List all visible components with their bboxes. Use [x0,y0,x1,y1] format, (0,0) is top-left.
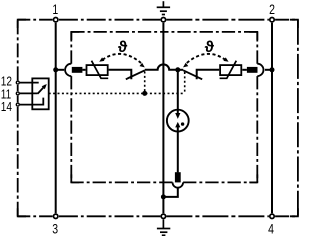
varistor RV2 body [220,65,241,75]
wire terminal 11 [20,92,38,94]
disconnect point left (socket notch in module edge) [65,64,71,76]
outer enclosure border (dash-dot) [18,20,298,217]
wire: left conductor terminal 1 to terminal 3 [55,23,57,213]
wire blade to centre node with hop over PE conductor [145,64,178,69]
terminal 12 circle [16,81,19,84]
disconnect point bottom (socket notch in module edge) [173,182,184,187]
varistor RV1 diagonal stroke [92,61,109,79]
thermal arc right arrowhead at varistor [223,57,228,61]
wire right switch fixed contact to varistor RV2 [197,70,220,80]
svg-text:ϑ: ϑ [118,39,128,56]
node centre junction dot [175,67,180,72]
wire: centre PE conductor top ground to bottom ground [162,23,164,213]
protection module dashed box (inner) [71,32,257,183]
disconnect point right (socket notch in module edge) [257,64,263,76]
wire bottom disconnect point to PE node [163,188,177,197]
svg-text:12: 12 [1,76,12,89]
wire from L1 node to left disconnect point [56,69,64,71]
changeover contact blade [38,85,46,94]
wire right disconnect point to L2 node [265,69,272,71]
ground symbol bottom [157,219,170,235]
spark gap F1 bottom electrode arrow [177,127,179,132]
node L1 junction dot [53,67,58,72]
thermal arc left arrowhead at varistor [99,57,104,61]
svg-text:14: 14 [1,101,12,114]
wire varistor RV1 to thermal switch fixed contact [109,70,132,80]
changeover contact blade arrowhead [42,84,47,89]
wire spark gap to bottom disconnect contact [177,132,179,173]
outer border corner joints [18,20,298,217]
wire to varistor RV1 [82,69,85,71]
thermal arc left (dashed) [103,54,142,63]
spark gap F1 top electrode arrow [177,110,179,114]
svg-text:ϑ: ϑ [205,39,215,56]
module box corner joints [71,32,257,183]
spark gap F1 circle [167,110,189,132]
terminal 2 circle [270,18,274,22]
wire: right conductor terminal 2 to terminal 4 [271,23,273,213]
terminal 14 circle [16,103,19,106]
terminal 11 circle [16,92,19,95]
disconnect contact block bottom (filled) [175,172,181,182]
thermal disconnect switch blade right [183,70,202,79]
svg-text:2: 2 [269,2,275,18]
node PE junction dot [161,194,166,199]
spark gap F1 wire from centre node [177,70,179,110]
svg-text:4: 4 [268,221,274,236]
wire terminal 12 [20,82,39,84]
terminal PE bottom circle [161,214,165,218]
remote signalling contact box [32,78,48,109]
svg-text:1: 1 [52,2,58,18]
svg-text:3: 3 [52,221,58,236]
wire centre node to right blade [178,69,183,71]
node L2 junction dot [270,67,275,72]
linkage junction dot [142,91,147,96]
thermal arc right arrowhead at switch [183,63,188,68]
svg-text:11: 11 [1,89,11,102]
terminal 1 circle [54,18,58,22]
thermal arc right (dashed) [187,54,226,63]
thermal disconnect switch blade left [126,70,145,79]
disconnect contact block left (filled) [72,67,83,73]
varistor RV1 body [87,65,108,75]
wire varistor RV2 to right disconnect contact [242,69,247,71]
terminal 4 circle [270,214,274,218]
ground symbol top [157,1,170,14]
varistor RV2 diagonal stroke [220,61,237,79]
terminal PE top circle [161,18,165,22]
disconnect contact block right (filled) [247,67,258,73]
thermal arc left arrowhead at switch [140,63,145,68]
terminal 3 circle [54,214,58,218]
wire terminal 14 with contact stub [20,98,44,105]
spark gap F1 gas dot [181,122,184,125]
mechanical linkage dotted line [49,72,185,94]
